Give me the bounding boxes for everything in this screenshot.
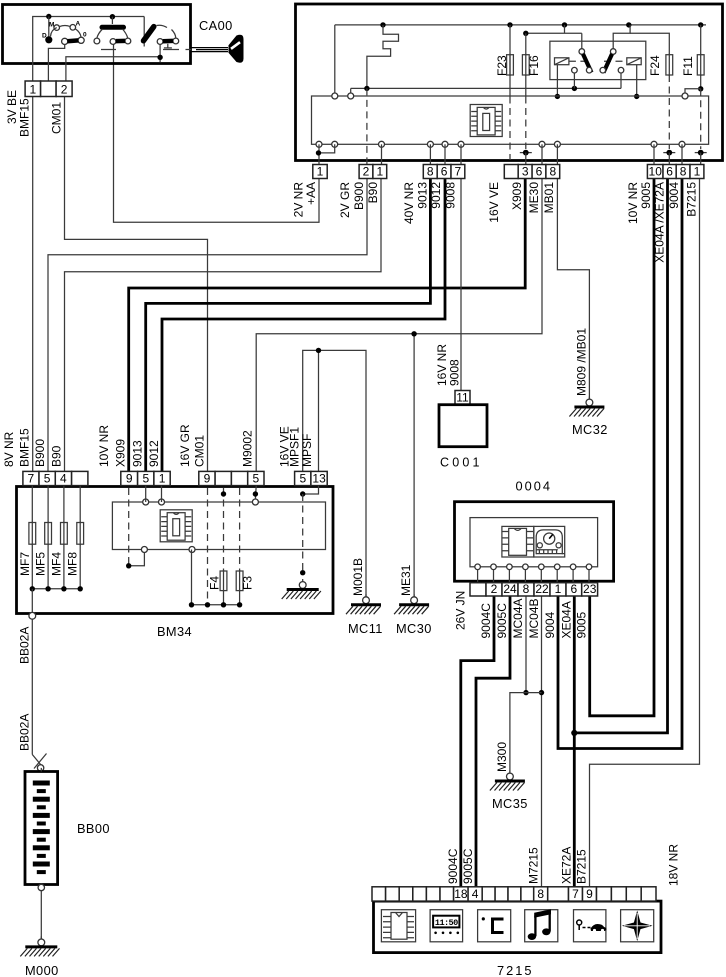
svg-text:7: 7 xyxy=(28,471,35,485)
svg-text:10V NR: 10V NR xyxy=(97,425,111,467)
wire MPSF junction inside BM34 xyxy=(303,486,319,494)
wire B900 dashed inside BSI xyxy=(366,88,368,164)
fuse F11 xyxy=(700,25,702,55)
svg-text:10: 10 xyxy=(649,164,663,178)
fuse F16 xyxy=(526,32,582,34)
wire BMF15 CA00-1 to BM34-7 xyxy=(32,97,34,472)
svg-text:MF4: MF4 xyxy=(49,552,63,576)
junction MC04B xyxy=(539,690,544,695)
svg-text:1: 1 xyxy=(317,164,324,178)
ground MC35 xyxy=(490,771,525,791)
IC symbol 0004 xyxy=(502,526,534,557)
svg-text:2V GR: 2V GR xyxy=(338,182,352,218)
module pins bottom and pin wires xyxy=(316,141,322,147)
0004 inner rect xyxy=(470,518,598,567)
svg-text:ME30: ME30 xyxy=(527,182,541,214)
wire pin stubs 6 8 right xyxy=(541,144,543,178)
relay box xyxy=(550,41,646,79)
wire M9002 pin stub xyxy=(254,486,257,499)
wire MPSF BM34-13 up xyxy=(318,350,320,471)
svg-text:ME31: ME31 xyxy=(399,564,413,596)
ground M000 xyxy=(20,936,59,956)
svg-text:9013: 9013 xyxy=(415,182,429,209)
svg-text:M809 /MB01: M809 /MB01 xyxy=(574,328,588,396)
svg-text:D: D xyxy=(42,33,47,40)
junction MPSF/MPSF1 xyxy=(316,348,321,353)
battery terminals xyxy=(40,768,42,772)
svg-text:X909: X909 xyxy=(510,182,524,210)
wire 9008 BSI-7 to C001-11 xyxy=(460,179,462,391)
svg-text:MC35: MC35 xyxy=(492,796,528,811)
BSI box 0004-unit outline xyxy=(296,4,723,161)
fuse box BM34 outline xyxy=(17,487,334,614)
svg-text:XE04A: XE04A xyxy=(559,601,573,638)
svg-text:1: 1 xyxy=(30,82,37,96)
svg-text:XE04A /XE72A: XE04A /XE72A xyxy=(653,182,667,263)
wire 9013 9012 pin stubs xyxy=(145,486,147,502)
icon star 7215 xyxy=(621,910,654,942)
connector BM34 pin 9 5 xyxy=(199,471,264,485)
wire CA00 switch3 to pin 2 xyxy=(159,44,161,57)
svg-text:16V GR: 16V GR xyxy=(178,424,192,467)
svg-text:MC30: MC30 xyxy=(396,621,432,636)
wire 9005C 0004-24 to 7215-4 xyxy=(476,596,510,887)
svg-text:A: A xyxy=(76,21,81,28)
svg-text:9004: 9004 xyxy=(667,182,681,209)
module pins BM34 xyxy=(143,499,149,505)
fuse F23 xyxy=(509,25,511,97)
junction XE04A pin6 xyxy=(663,150,675,156)
wire CM01 CA00-2 to BM34-9 xyxy=(65,97,208,472)
relay K1 left xyxy=(555,33,593,94)
svg-text:F3: F3 xyxy=(241,576,255,590)
module pins top xyxy=(332,93,338,99)
svg-text:9008: 9008 xyxy=(448,359,462,386)
wire X909 dashed inside BM34 xyxy=(128,488,130,566)
svg-text:M7215: M7215 xyxy=(527,847,541,884)
svg-text:9004C: 9004C xyxy=(479,603,493,639)
svg-text:9008: 9008 xyxy=(444,182,458,209)
wire pin stubs 8 6 7 xyxy=(429,144,431,178)
ignition switch CA00 box xyxy=(3,5,191,64)
svg-text:9004: 9004 xyxy=(543,611,557,638)
svg-text:CM01: CM01 xyxy=(50,102,64,134)
svg-text:6: 6 xyxy=(666,164,673,178)
IC symbol BM34 xyxy=(160,510,192,542)
CA00 switch 1 contacts xyxy=(42,17,87,45)
svg-text:F23: F23 xyxy=(495,55,509,76)
svg-text:0004: 0004 xyxy=(516,479,552,494)
wire BB00 to M000 xyxy=(40,891,42,939)
svg-text:5: 5 xyxy=(142,471,149,485)
svg-text:3: 3 xyxy=(522,164,529,178)
icon music note 7215 xyxy=(525,909,558,942)
svg-text:MC04A: MC04A xyxy=(511,598,525,638)
wire 9005 0004-23 to BSI-10 xyxy=(590,179,654,716)
svg-text:5: 5 xyxy=(253,471,260,485)
splice to battery xyxy=(32,754,46,769)
ground MC30 xyxy=(394,594,429,614)
wire F3 dashed xyxy=(239,488,241,571)
svg-text:1: 1 xyxy=(694,164,701,178)
svg-text:B900: B900 xyxy=(33,439,47,467)
wire 9012 BSI-6 to BM34-1 xyxy=(162,179,445,472)
wire F4 dashed xyxy=(223,488,225,571)
svg-text:MPSF: MPSF xyxy=(300,434,314,467)
CA00 switch 2 contacts xyxy=(94,17,131,45)
junction B7215 pin1 xyxy=(695,150,707,156)
svg-text:B7215: B7215 xyxy=(575,849,589,884)
wire 9004C 0004-2 to 7215-18 xyxy=(461,596,494,887)
junction ME31/M9002 xyxy=(411,331,416,336)
IC symbol BSI xyxy=(470,105,502,137)
svg-text:B90: B90 xyxy=(366,182,380,204)
svg-text:6: 6 xyxy=(571,582,578,596)
svg-text:9005C: 9005C xyxy=(461,848,475,884)
svg-text:BB02A: BB02A xyxy=(17,714,31,751)
CA00 internal bus xyxy=(33,17,145,82)
fuse F24 xyxy=(630,33,669,54)
svg-text:9005: 9005 xyxy=(575,611,589,638)
icon chip 7215 xyxy=(381,910,415,942)
svg-text:+AA: +AA xyxy=(304,182,318,205)
connector BM34 pins 9 5 1 xyxy=(121,471,170,485)
svg-text:X909: X909 xyxy=(114,439,128,467)
wire MC04B M7215 0004-22 to 7215-8 xyxy=(541,596,543,887)
svg-text:9013: 9013 xyxy=(131,440,145,467)
svg-text:9: 9 xyxy=(126,471,133,485)
staircase wire to B900 xyxy=(367,25,399,89)
svg-text:MF8: MF8 xyxy=(66,552,80,576)
svg-text:24: 24 xyxy=(503,582,517,596)
fuse MF7 xyxy=(31,486,33,523)
svg-text:8: 8 xyxy=(523,582,530,596)
svg-text:8: 8 xyxy=(427,164,434,178)
svg-text:F24: F24 xyxy=(648,55,662,76)
svg-text:6: 6 xyxy=(536,164,543,178)
svg-text:C001: C001 xyxy=(440,456,483,470)
icon clock 7215 xyxy=(430,910,463,942)
svg-text:MC04B: MC04B xyxy=(527,598,541,638)
fuse MF8 xyxy=(79,486,81,523)
module 0004 outline xyxy=(455,502,614,582)
svg-text:B90: B90 xyxy=(50,445,64,467)
svg-text:1: 1 xyxy=(555,582,562,596)
module C001 xyxy=(439,405,487,447)
icon C door 7215 xyxy=(478,910,511,942)
wire ME31 to MC30 xyxy=(413,334,415,597)
svg-text:11: 11 xyxy=(456,391,469,405)
svg-text:BM34: BM34 xyxy=(157,624,192,639)
fuse MF4 xyxy=(63,486,65,523)
svg-text:5: 5 xyxy=(44,471,51,485)
junction relay coil pins xyxy=(555,94,560,99)
svg-text:8V NR: 8V NR xyxy=(2,431,16,467)
connector BSI pins 8 6 7 xyxy=(423,164,465,178)
wire MC04A 0004-8 down xyxy=(525,596,527,693)
svg-text:MB01: MB01 xyxy=(542,182,556,214)
CA00 switch 3 contacts xyxy=(144,25,179,48)
BM34 fuse bus xyxy=(32,588,80,590)
svg-text:BMF15: BMF15 xyxy=(18,98,32,137)
connector 0004 pins 2 24 8 22 1 6 23 xyxy=(470,582,598,596)
wire 9013 BSI-8 to BM34-5 xyxy=(146,179,431,472)
svg-text:18V NR: 18V NR xyxy=(667,844,681,886)
svg-text:5: 5 xyxy=(299,471,306,485)
relay K2 right xyxy=(600,25,641,94)
svg-text:9: 9 xyxy=(204,471,211,485)
wire BB02A BM34 to BB00 xyxy=(31,619,33,754)
wire CA00 switch1 to middle pin xyxy=(48,44,64,81)
svg-text:B7215: B7215 xyxy=(685,182,699,217)
svg-text:16V VE: 16V VE xyxy=(487,182,501,223)
connector BM34 pins 7 5 4 xyxy=(23,471,88,485)
svg-text:M001B: M001B xyxy=(351,558,365,596)
wire MPSF1 MPSF to MC11 bus xyxy=(303,350,366,597)
svg-text:9005: 9005 xyxy=(639,182,653,209)
svg-text:BB00: BB00 xyxy=(77,821,110,836)
BM34 output pin BB02A xyxy=(29,612,36,619)
BSI line1 horizontal xyxy=(351,87,621,89)
svg-text:M300: M300 xyxy=(495,742,509,772)
svg-text:2: 2 xyxy=(61,82,68,96)
junction X909 pin3 xyxy=(520,150,532,156)
wire +AA BSI-1 to CA00 xyxy=(114,45,320,223)
svg-text:M9002: M9002 xyxy=(241,430,255,467)
svg-text:11:50: 11:50 xyxy=(435,918,458,928)
svg-text:9012: 9012 xyxy=(147,440,161,467)
svg-text:BB02A: BB02A xyxy=(17,627,31,664)
connector BSI pins 10 6 8 1 xyxy=(647,164,704,178)
svg-text:MC32: MC32 xyxy=(572,422,608,437)
svg-text:4: 4 xyxy=(60,471,67,485)
0004 module pins xyxy=(475,564,481,570)
ground MC11 xyxy=(346,594,381,614)
svg-text:18: 18 xyxy=(454,887,468,901)
junction MC04A xyxy=(523,690,528,695)
svg-text:MC11: MC11 xyxy=(348,621,383,636)
gauge symbol 0004 xyxy=(534,526,565,557)
svg-text:MF5: MF5 xyxy=(34,552,48,576)
connector BM34 pins 5 13 xyxy=(295,471,328,485)
BSI inner module rect xyxy=(312,96,709,144)
svg-text:4: 4 xyxy=(472,887,479,901)
connector BSI pin 1 +AA xyxy=(313,164,327,178)
wire B90 pin stub xyxy=(381,144,383,178)
BSI top bus xyxy=(335,24,706,26)
svg-text:22: 22 xyxy=(535,582,549,596)
svg-text:F16: F16 xyxy=(527,55,541,76)
wire X909 BSI-3 to BM34-9 xyxy=(129,179,526,472)
svg-text:B900: B900 xyxy=(352,182,366,210)
icon key car 7215 xyxy=(574,910,607,942)
fuse MF5 xyxy=(47,486,49,523)
svg-text:F11: F11 xyxy=(681,56,695,76)
wire +AA pin stub xyxy=(318,144,320,178)
wire CM01 dashed inside BM34 xyxy=(207,488,209,605)
junction XE04A/XE72A xyxy=(571,730,577,736)
svg-text:9004C: 9004C xyxy=(446,848,460,884)
wire XE04A/XE72A 0004-6 to BSI-6 and 7215-7 xyxy=(573,596,576,887)
svg-text:XE72A: XE72A xyxy=(559,847,573,884)
connector 7215 row xyxy=(372,887,656,901)
svg-text:9: 9 xyxy=(586,887,593,901)
wire ME30 M9002 BSI-6 to BM34-5 xyxy=(256,179,542,472)
svg-text:CA00: CA00 xyxy=(199,18,233,33)
ground inside BM34 xyxy=(282,579,321,599)
BM34 lower bus xyxy=(192,604,240,606)
connector BSI pins 2 1 xyxy=(359,164,387,178)
BM34 inner module rect xyxy=(112,502,325,550)
svg-text:7215: 7215 xyxy=(497,963,533,977)
svg-text:8: 8 xyxy=(537,887,544,901)
wire BB02A inside BM34 xyxy=(31,589,33,613)
svg-text:13: 13 xyxy=(312,471,326,485)
svg-text:9012: 9012 xyxy=(429,182,443,209)
wire B900 BSI-2 to BM34-5 xyxy=(48,179,367,472)
svg-text:1: 1 xyxy=(159,471,166,485)
battery BB00 xyxy=(25,772,58,885)
svg-text:MF7: MF7 xyxy=(18,552,32,576)
svg-text:40V NR: 40V NR xyxy=(402,182,416,224)
wire 9004 0004-1 to BSI-8 xyxy=(558,179,682,749)
wire MB01 BSI-8 to MC32 xyxy=(557,179,589,400)
svg-text:BMF15: BMF15 xyxy=(18,428,32,467)
svg-text:26V JN: 26V JN xyxy=(454,591,468,630)
connector BSI pins 3 6 8 xyxy=(504,164,559,178)
svg-text:M000: M000 xyxy=(25,963,59,977)
wire BSI bus left drop xyxy=(334,25,336,93)
ground MC32 xyxy=(569,397,604,417)
svg-text:7: 7 xyxy=(455,164,462,178)
wire pin stubs 10 8 far right xyxy=(653,144,655,178)
wire B7215 BSI-1 to 7215-9 xyxy=(590,179,700,888)
svg-text:0: 0 xyxy=(83,32,87,39)
svg-text:F4: F4 xyxy=(208,576,222,590)
svg-text:6: 6 xyxy=(441,164,448,178)
fuse F3 xyxy=(236,570,243,592)
svg-text:7: 7 xyxy=(572,887,579,901)
fuse F4 xyxy=(220,570,227,592)
CA00 mechanical link dashed xyxy=(101,49,191,51)
svg-text:9005C: 9005C xyxy=(495,603,509,639)
svg-text:10V NR: 10V NR xyxy=(626,182,640,224)
svg-text:2: 2 xyxy=(491,582,498,596)
svg-text:1: 1 xyxy=(376,164,383,178)
wire B90 BSI-1 to BM34-4 xyxy=(65,179,382,472)
svg-text:8: 8 xyxy=(549,164,556,178)
connector CM01 below CA00 xyxy=(25,81,72,97)
svg-text:23: 23 xyxy=(583,582,597,596)
key symbol xyxy=(191,35,244,63)
svg-text:2: 2 xyxy=(363,164,370,178)
display unit 7215 outline xyxy=(374,901,662,953)
svg-text:8: 8 xyxy=(680,164,687,178)
connector C001 pin 11 xyxy=(455,391,470,405)
svg-text:M: M xyxy=(49,22,54,29)
wire M300 to MC35 xyxy=(510,693,542,773)
svg-text:CM01: CM01 xyxy=(193,435,207,467)
